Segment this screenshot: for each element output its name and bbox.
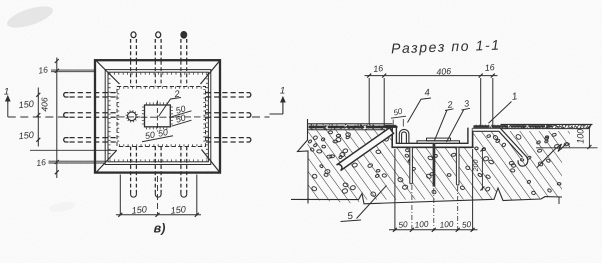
dimension line 150 150 bottom of plan — [116, 214, 201, 216]
section cut line across plan centre — [252, 116, 270, 118]
anchor rod left below pit — [410, 147, 413, 184]
bottom plate item 3 in pit — [417, 141, 460, 144]
photocopy grain overlay — [0, 0, 1, 1]
gasket square (dashed with inward ticks) — [117, 87, 206, 147]
extension lines 16 top-left — [51, 69, 96, 71]
plan view: outer frame square — [95, 60, 220, 172]
floor surface left of recess — [308, 123, 393, 125]
mitre diagonal top-right — [201, 61, 220, 84]
section cut line crossing plan interior right — [175, 116, 206, 118]
side anchor loop right top row — [247, 93, 251, 97]
scan smudge bottom-left — [48, 200, 75, 213]
extension lines bottom dimension plan — [119, 175, 121, 216]
anchor chain top-left column — [131, 32, 136, 38]
extension line gasket bottom-left — [30, 149, 117, 151]
section cut line crossing plan interior left — [118, 116, 140, 118]
cover strip item 2 on plate — [427, 138, 451, 141]
screed diagonal tick texture right — [475, 125, 592, 129]
dimension 50 lower right of plate — [172, 120, 192, 126]
section mark 1 right: arrow — [270, 113, 283, 115]
anchor chain bottom-right column — [180, 147, 182, 193]
anchor chain bottom-middle column — [154, 147, 156, 193]
side anchor loop right middle row — [247, 113, 251, 117]
edge flashing item 1 with J-hook — [473, 130, 525, 157]
anchor chain top-right column — [181, 32, 186, 38]
side anchor loop right bottom row — [247, 138, 251, 142]
dimension 50 50 below plate — [142, 136, 173, 142]
extension lines 16 bottom-left — [49, 160, 106, 162]
bottom dimension extension lines — [394, 149, 396, 231]
anchor rod centre below plate — [433, 144, 436, 187]
side anchor loop left bottom row — [64, 138, 69, 142]
dimension line 150/150 left — [37, 88, 39, 147]
side anchor loop left top row — [64, 93, 69, 97]
top dimension line 16 406 16 — [365, 75, 498, 77]
mitre diagonal top-left — [97, 61, 120, 84]
anchor chain bottom-left column — [130, 147, 132, 193]
dimension 100 slab right — [588, 126, 590, 148]
torn bottom edge of concrete — [291, 188, 562, 204]
recess pit concrete outline — [392, 127, 472, 148]
floor screed dark band left — [309, 126, 392, 129]
mitre diagonal bottom-right — [202, 150, 220, 173]
anchor rod right below pit — [456, 147, 459, 185]
hairpin anchor item 5 left side — [337, 128, 394, 171]
scan smudge top-left — [5, 2, 56, 32]
top dimension extension lines — [368, 78, 370, 124]
mitre diagonal bottom-left — [97, 151, 117, 173]
break line right (jagged) — [537, 144, 567, 168]
left break edge of slab — [298, 119, 309, 204]
screed stipple texture — [345, 127, 347, 129]
bottom dimension line 50 100 100 50 — [389, 229, 478, 231]
dimension 200 anchor depth — [481, 148, 483, 191]
leader and label 2 (plan) — [159, 98, 182, 117]
dimension 50 upper right of plate — [172, 111, 192, 117]
side anchor loop left middle row — [64, 113, 69, 117]
floor screed dark band right — [474, 125, 553, 127]
cover plate item 2 (square with weld ticks) — [145, 105, 171, 127]
weld serration on frame opening edge — [108, 72, 209, 162]
drain hole circle with radial ticks — [128, 112, 137, 121]
plan horizontal centreline through plate — [141, 116, 175, 118]
plate vertical centreline — [156, 101, 158, 132]
steel channel liner item 4 walls — [396, 127, 468, 143]
dimension line 406 left — [56, 58, 58, 179]
slab underside line right — [536, 147, 598, 149]
floor surface right of flashing — [501, 123, 593, 125]
hook anchor item 4 (inverted U in pit) — [399, 129, 409, 143]
section mark 1 left: arrow and cut line — [7, 99, 9, 105]
anchor chain top-middle column — [156, 32, 161, 38]
plan view: frame opening inner square (double line) — [105, 70, 211, 165]
frame lip left (angle edge) — [383, 126, 398, 128]
